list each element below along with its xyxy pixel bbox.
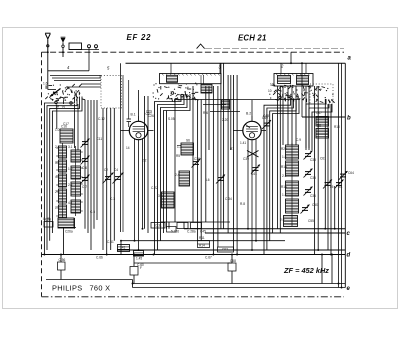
bus c line 1 [184, 228, 345, 230]
wire v166 [166, 111, 168, 229]
wire antenna box bottom [48, 70, 89, 72]
svg-text:C.29: C.29 [43, 217, 50, 221]
svg-text:R11: R11 [199, 236, 205, 240]
svg-text:C62: C62 [222, 248, 228, 252]
svg-text:S: S [99, 75, 101, 79]
trimmer C2 [103, 173, 114, 184]
svg-text:2.4: 2.4 [175, 173, 180, 177]
wire v278 [277, 86, 279, 229]
bus c line 2 [205, 232, 345, 234]
svg-text:8: 8 [75, 93, 77, 97]
wire cluster top link 2 [81, 83, 101, 85]
svg-text:2.2: 2.2 [142, 159, 147, 163]
svg-text:C17: C17 [63, 122, 69, 126]
svg-text:4.4: 4.4 [68, 201, 73, 205]
bus e line 1 [133, 283, 346, 285]
svg-text:C.28a: C.28a [187, 230, 196, 234]
wire mid link y145 [177, 145, 181, 147]
wire C58 stem top [231, 255, 233, 264]
wire v97 [96, 100, 98, 220]
svg-text:2.8: 2.8 [55, 145, 60, 149]
wire v201 [200, 100, 202, 241]
svg-text:C33: C33 [310, 158, 316, 162]
svg-text:F: F [140, 266, 142, 270]
svg-text:4: 4 [67, 65, 70, 70]
wire EF22 grid left [121, 130, 130, 132]
bus mid line [121, 240, 285, 242]
wire left cluster to bus c [74, 218, 76, 229]
svg-text:c: c [347, 231, 351, 237]
wire e corner [132, 280, 134, 288]
svg-text:7: 7 [170, 91, 172, 95]
capacitor C62 box [218, 247, 234, 252]
wire EF22 cath 2 [138, 140, 140, 251]
svg-text:5: 5 [107, 66, 110, 71]
wire v85 [84, 100, 86, 229]
svg-text:C.66: C.66 [96, 256, 103, 260]
svg-text:R.6: R.6 [203, 111, 208, 115]
svg-text:C.3: C.3 [110, 197, 115, 201]
earth terminal E1 [61, 37, 66, 57]
wire C56 stem bottom [60, 270, 62, 280]
trimmer C4 [113, 173, 124, 184]
wire v175 [174, 100, 176, 223]
wire row into can 1 [50, 75, 101, 77]
IF can T2 [274, 74, 313, 87]
svg-text:15: 15 [62, 106, 66, 110]
svg-text:3.1: 3.1 [68, 145, 73, 149]
wire T3 feed 2 [219, 63, 221, 73]
svg-text:d: d [347, 253, 351, 259]
oscillator X mark [247, 151, 259, 158]
coil C16 box [60, 129, 73, 143]
trimmer C4b [335, 180, 344, 189]
svg-text:C.7: C.7 [82, 185, 87, 189]
svg-text:b: b [347, 116, 351, 122]
trimmer C35 [304, 169, 313, 178]
svg-text:C30: C30 [194, 157, 200, 161]
trimmer C6 [81, 156, 90, 165]
wire v309 [308, 86, 310, 148]
wire screen tick [290, 52, 292, 63]
coil box mid low [201, 85, 212, 94]
svg-text:C.61: C.61 [107, 240, 114, 244]
bus d line 2 [42, 254, 345, 256]
svg-text:1.6: 1.6 [43, 82, 48, 86]
svg-text:1.8: 1.8 [282, 155, 287, 159]
wire d-e drop 2 [331, 255, 333, 284]
wire v328 [327, 104, 329, 250]
wire v184 drop [183, 222, 185, 229]
wire T3 feed 1 [170, 63, 172, 73]
svg-text:C.9: C.9 [296, 138, 301, 142]
coil stack R [291, 143, 293, 226]
wave switch S2 cluster [195, 99, 199, 100]
wire row into can 2 [52, 77, 101, 79]
svg-text:2: 2 [280, 64, 284, 69]
svg-text:PHILIPS 760 X: PHILIPS 760 X [52, 284, 110, 293]
trimmer C7 [81, 175, 90, 184]
wire bundle left staircase [44, 97, 74, 255]
svg-text:ECH 21: ECH 21 [238, 34, 267, 43]
wire v209 [208, 86, 210, 150]
wire ECH21 cath 3 [255, 139, 257, 241]
svg-text:C55: C55 [308, 219, 314, 223]
svg-text:R10: R10 [334, 125, 340, 129]
wire bundle middle staircase [155, 94, 182, 255]
svg-text:R7: R7 [230, 147, 234, 151]
shield can dotted 1 [101, 76, 122, 109]
wire switch drop 1 [56, 105, 58, 130]
terminal P1 [88, 45, 91, 48]
junction dots [47, 51, 49, 53]
wire d-e drop 1 [321, 255, 323, 284]
shield box left edge [120, 63, 122, 232]
bus e line 2 [133, 287, 346, 289]
wire v283 [282, 86, 284, 145]
svg-text:141: 141 [120, 246, 126, 250]
coil R bottom [284, 216, 298, 227]
wire v213 [212, 86, 214, 255]
svg-text:S6: S6 [186, 139, 190, 143]
wire T2 feed 2 [305, 63, 307, 73]
svg-text:C.5: C.5 [90, 210, 95, 214]
wire v91 [90, 100, 92, 250]
shield box right edge [344, 63, 346, 287]
bus d line 1 [117, 249, 345, 251]
svg-text:C26a: C26a [65, 230, 73, 234]
wire v315 [314, 86, 316, 255]
svg-text:R5: R5 [176, 154, 180, 158]
wire row into can 3 [54, 80, 101, 82]
wire heater stem [133, 256, 135, 267]
capacitor C45 box [191, 223, 202, 229]
wire v144 [144, 96, 146, 229]
svg-text:C2: C2 [104, 168, 108, 172]
svg-text:C58: C58 [230, 259, 236, 263]
antenna A1 [45, 33, 50, 52]
svg-text:C50: C50 [312, 203, 318, 207]
trimmer C33 [304, 151, 313, 160]
svg-text:C29: C29 [146, 110, 152, 114]
svg-text:C.67: C.67 [205, 256, 212, 260]
svg-text:C39: C39 [243, 157, 249, 161]
capacitor C28a box [177, 223, 188, 229]
wire jog 1 [203, 104, 226, 106]
wire ECH21 grid left [233, 130, 243, 132]
svg-text:1.3: 1.3 [177, 145, 182, 149]
coil stack L-B [75, 146, 77, 216]
trimmer C51 [323, 180, 332, 189]
wire antenna turn [48, 89, 56, 91]
wire v198 [197, 100, 199, 241]
rail b line [302, 116, 346, 118]
wire right pair 1 [338, 63, 340, 287]
coil right IFT b [316, 129, 329, 139]
wire v231 [230, 75, 232, 150]
antenna coupling box [69, 43, 82, 50]
svg-text:a: a [348, 56, 352, 62]
wire ECH21 anode top [251, 100, 253, 116]
svg-text:C4: C4 [114, 168, 118, 172]
heater wire h1 [134, 262, 232, 264]
wire bundle right staircase [264, 99, 291, 255]
capacitor C29 sym [127, 118, 132, 120]
coil small k [222, 100, 230, 109]
coil M3 [162, 192, 175, 208]
svg-text:R18: R18 [281, 165, 287, 169]
svg-text:C49: C49 [262, 116, 268, 120]
wire v107 [106, 108, 108, 255]
rail a line [126, 62, 346, 64]
wire bottom cluster link [58, 227, 76, 229]
bus e upper stub [46, 279, 133, 281]
shield dots right [316, 86, 320, 88]
svg-text:5.8: 5.8 [55, 161, 60, 165]
trimmer C30 [192, 159, 201, 168]
resistor box heater [134, 251, 144, 257]
svg-text:C47: C47 [316, 111, 322, 115]
wire v224 [223, 63, 225, 229]
shield can dotted 2 [310, 84, 333, 104]
trimmer C5 [81, 139, 90, 148]
wire v228 [227, 75, 229, 233]
wire v280 [279, 86, 281, 233]
wire stack feed 2 [77, 104, 79, 150]
chassis dash-dot top line [42, 51, 345, 53]
wire v88 [87, 100, 89, 233]
wire ECH21 right [261, 130, 266, 132]
svg-text:14: 14 [126, 146, 130, 150]
wire v121 drop [120, 241, 122, 255]
coil M2 [179, 171, 190, 186]
wire bundle top-right corners [306, 99, 326, 150]
chassis dashed left boundary [41, 52, 43, 296]
svg-text:C35: C35 [310, 176, 316, 180]
wire v114 [113, 108, 115, 241]
svg-text:C.6: C.6 [82, 166, 87, 170]
wire v206 [205, 86, 207, 222]
svg-text:C.31: C.31 [155, 224, 162, 228]
wire EF22 anode right [148, 130, 154, 132]
wire T2 feed 1 [280, 63, 282, 73]
svg-text:C36: C36 [310, 194, 316, 198]
svg-text:C45: C45 [200, 230, 206, 234]
wire EF22 anode top [138, 90, 140, 116]
svg-text:2.9: 2.9 [280, 218, 285, 222]
trimmer C41 [251, 165, 260, 174]
svg-text:B.2: B.2 [246, 112, 251, 116]
svg-text:C61: C61 [320, 157, 326, 161]
svg-text:10: 10 [270, 83, 274, 87]
svg-text:1.2: 1.2 [55, 206, 60, 210]
svg-text:C.22: C.22 [151, 186, 158, 190]
wire v111 [110, 108, 112, 250]
wire EF22 cath 1 [134, 139, 136, 241]
wire terminal drop [88, 50, 90, 71]
wire v94 [93, 100, 95, 229]
svg-text:2.1: 2.1 [282, 174, 287, 178]
wire v148 [147, 96, 149, 233]
wire antenna lead-in [47, 52, 49, 89]
wire C29 drop [128, 80, 130, 119]
svg-text:5.226: 5.226 [171, 230, 179, 234]
wire v331 [330, 104, 332, 255]
wire v233 [233, 75, 235, 250]
wire v288 [287, 86, 289, 145]
wire v103 [102, 108, 104, 250]
wire rail b riser [301, 63, 303, 117]
chassis upper gray line [205, 48, 344, 50]
coil bottom box [58, 218, 74, 228]
svg-text:C11: C11 [97, 137, 103, 141]
trimmer C64 [339, 171, 348, 180]
svg-text:R9: R9 [317, 124, 321, 128]
svg-text:R.8: R.8 [240, 202, 245, 206]
svg-text:1.45: 1.45 [136, 257, 142, 261]
wire v292 [291, 86, 293, 145]
capacitor C29a box [44, 222, 53, 228]
wire mid cluster link [161, 221, 230, 223]
IF can T3 [160, 74, 222, 84]
svg-text:4.8: 4.8 [55, 175, 60, 179]
wire heater stem 2 [133, 275, 135, 284]
svg-text:9: 9 [287, 93, 289, 97]
svg-text:c5: c5 [330, 185, 334, 189]
wire cluster top link [66, 86, 101, 88]
svg-text:R14: R14 [199, 244, 205, 248]
svg-text:S.05: S.05 [168, 117, 175, 121]
svg-text:1.41: 1.41 [240, 141, 246, 145]
resistor R11 box [198, 241, 210, 248]
trimmer L6 [216, 175, 225, 184]
svg-text:EF 22: EF 22 [127, 33, 152, 42]
svg-text:C26: C26 [148, 114, 154, 118]
svg-text:1.4: 1.4 [282, 193, 287, 197]
coil stack L-A [62, 143, 64, 218]
svg-text:2.6: 2.6 [68, 183, 73, 187]
wire mid rail y99 [175, 99, 300, 101]
svg-text:1.0: 1.0 [55, 128, 60, 132]
wire right pair 2 [341, 63, 343, 287]
wave switch S3 cluster [278, 93, 281, 96]
wire v306 [305, 86, 307, 148]
switch arm S1 [50, 89, 61, 97]
svg-text:C64: C64 [348, 171, 354, 175]
svg-text:e: e [347, 286, 351, 292]
wire ECH21 cath 2 [251, 140, 253, 250]
svg-text:R20: R20 [281, 147, 287, 151]
tube EF22 B1 [129, 121, 147, 139]
capacitor C44 box [167, 227, 177, 233]
trimmer C48 [262, 120, 271, 129]
wire v318 [317, 86, 319, 250]
wire ECH21 cath 1 [247, 139, 249, 229]
coil M1 [181, 143, 194, 155]
wire terminal rail [69, 49, 99, 51]
svg-text:L6: L6 [206, 178, 210, 182]
tube ECH21 B2 [243, 121, 261, 139]
wire jog 2 [210, 111, 240, 113]
trimmer C39 [301, 205, 310, 214]
resistor box R mid [118, 245, 130, 252]
svg-text:C41: C41 [251, 172, 257, 176]
svg-text:2.20: 2.20 [222, 118, 228, 122]
wire v325 [324, 99, 326, 229]
svg-text:14: 14 [56, 105, 60, 109]
capacitor C56 box [58, 262, 66, 270]
wire left cluster to bus d [63, 227, 65, 255]
wire EF22 cath 3 [142, 139, 144, 229]
capacitor C58 box [228, 263, 236, 271]
svg-text:R16: R16 [281, 185, 287, 189]
svg-text:c4: c4 [339, 185, 343, 189]
capacitor C57 box [130, 267, 138, 276]
wire v296 [295, 86, 297, 145]
svg-text:C.56: C.56 [59, 258, 66, 262]
wire v169 drop [168, 222, 170, 229]
wire C58 stem bottom [231, 271, 233, 284]
wire v237 [236, 75, 238, 255]
svg-text:10: 10 [268, 89, 272, 93]
wire stack feed 1 [74, 104, 76, 148]
wire v335 [334, 186, 336, 229]
capacitor C31 box [151, 223, 165, 229]
wire C56 stem top [60, 255, 62, 263]
trimmer C36 [304, 187, 313, 196]
svg-text:2.0: 2.0 [55, 190, 60, 194]
terminal P2 [95, 45, 98, 48]
svg-text:1.9: 1.9 [68, 167, 73, 171]
svg-text:B.1: B.1 [131, 113, 136, 117]
chassis dash-dot bottom line [42, 296, 345, 298]
coil right IFT a [316, 117, 329, 127]
svg-text:3.0: 3.0 [158, 194, 163, 198]
wave switch S1 cluster [50, 99, 54, 100]
chassis line tent bump [197, 44, 205, 49]
wire v218 [217, 86, 219, 247]
wire shield inner [122, 75, 124, 232]
wire v221 [220, 63, 222, 229]
svg-text:C.34: C.34 [225, 197, 232, 201]
svg-text:C.12: C.12 [98, 117, 105, 121]
wire v193 [192, 86, 194, 222]
